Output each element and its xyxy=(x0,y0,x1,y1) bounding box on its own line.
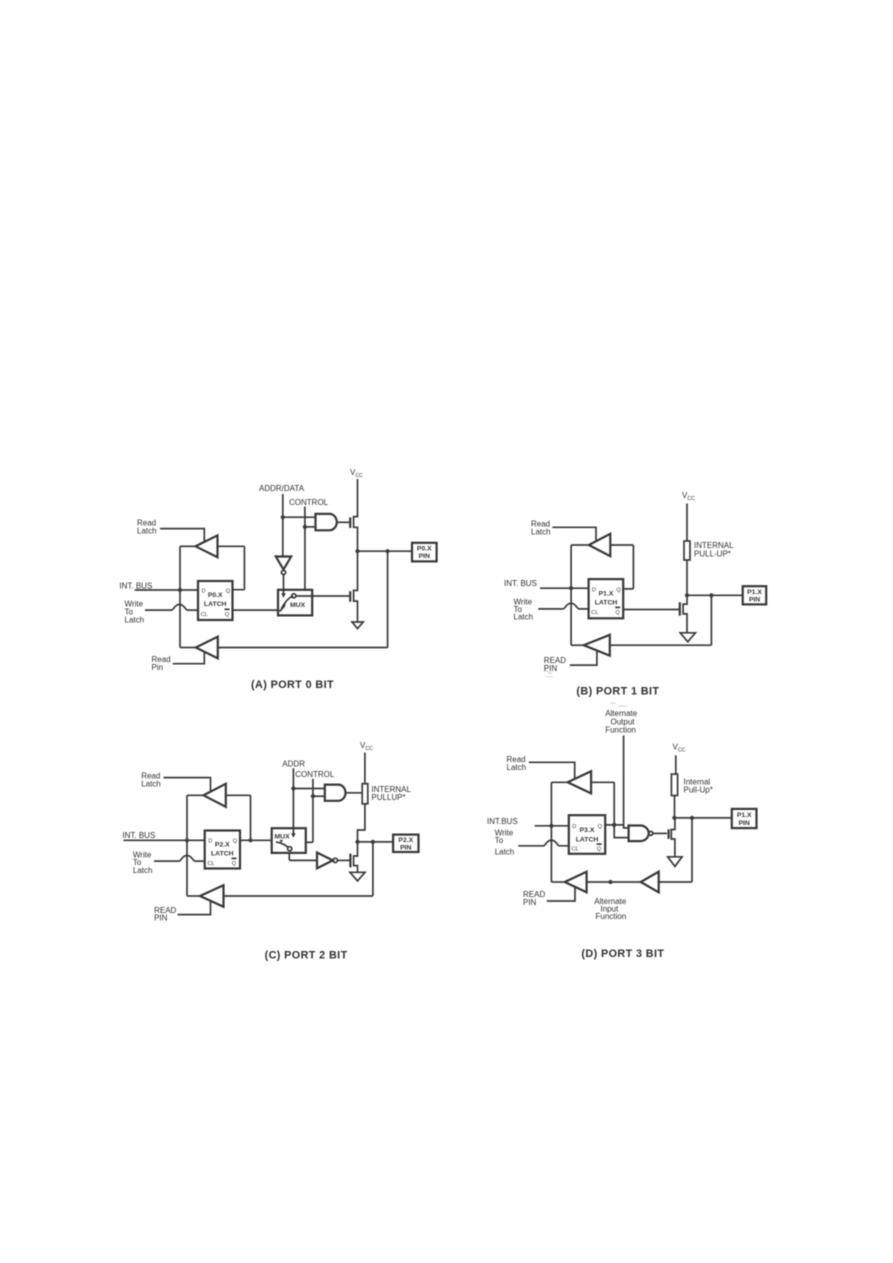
svg-text:P2.X: P2.X xyxy=(398,837,413,844)
svg-text:CL: CL xyxy=(591,610,598,616)
svg-text:CONTROL: CONTROL xyxy=(295,770,335,779)
svg-text:Q: Q xyxy=(226,588,231,594)
svg-text:P0.X: P0.X xyxy=(208,592,223,599)
svg-text:P1.X: P1.X xyxy=(737,812,752,819)
svg-text:VCC: VCC xyxy=(673,743,686,754)
svg-text:VCC: VCC xyxy=(360,741,373,752)
svg-text:D: D xyxy=(208,839,212,845)
svg-text:ADDR: ADDR xyxy=(282,760,305,769)
svg-text:Latch: Latch xyxy=(141,780,161,789)
svg-text:ADDR/DATA: ADDR/DATA xyxy=(259,484,305,493)
svg-text:Q: Q xyxy=(598,824,603,830)
svg-text:VCC: VCC xyxy=(682,491,695,502)
svg-text:PULL-UP*: PULL-UP* xyxy=(694,550,731,559)
svg-text:Pull-Up*: Pull-Up* xyxy=(684,786,713,795)
svg-text:LATCH: LATCH xyxy=(204,601,227,608)
svg-text:(A) PORT 0 BIT: (A) PORT 0 BIT xyxy=(251,679,334,691)
svg-text:Latch: Latch xyxy=(495,848,515,857)
svg-text:INT. BUS: INT. BUS xyxy=(122,831,155,840)
svg-text:CONTROL: CONTROL xyxy=(289,498,329,507)
svg-text:PIN: PIN xyxy=(400,845,411,852)
svg-text:Latch: Latch xyxy=(137,527,157,536)
svg-text:CL: CL xyxy=(208,861,215,867)
svg-text:PIN: PIN xyxy=(544,664,558,673)
svg-text:D: D xyxy=(202,588,206,594)
svg-text:P0.X: P0.X xyxy=(417,546,432,553)
svg-text:PIN: PIN xyxy=(739,820,750,827)
svg-text:PIN: PIN xyxy=(523,898,537,907)
svg-text:PULLUP*: PULLUP* xyxy=(371,793,405,802)
svg-text:LATCH: LATCH xyxy=(576,836,599,843)
svg-text:Latch: Latch xyxy=(531,528,551,537)
svg-text:PIN: PIN xyxy=(154,914,168,923)
svg-text:INT.BUS: INT.BUS xyxy=(487,817,518,826)
svg-text:LATCH: LATCH xyxy=(595,600,618,607)
svg-text:INT. BUS: INT. BUS xyxy=(504,579,537,588)
svg-text:(B) PORT 1 BIT: (B) PORT 1 BIT xyxy=(576,686,659,698)
svg-text:Function: Function xyxy=(596,912,627,921)
svg-text:Q: Q xyxy=(232,861,237,867)
svg-text:Latch: Latch xyxy=(514,613,534,622)
svg-text:Q: Q xyxy=(615,610,620,616)
svg-text:PIN: PIN xyxy=(749,597,760,604)
svg-text:VCC: VCC xyxy=(350,468,363,479)
svg-text:P1.X: P1.X xyxy=(747,589,762,596)
svg-text:LATCH: LATCH xyxy=(211,851,234,858)
svg-text:Pin: Pin xyxy=(152,663,164,672)
svg-text:Q: Q xyxy=(616,588,621,594)
svg-text:Q: Q xyxy=(225,612,230,618)
svg-text:MUX: MUX xyxy=(290,602,306,609)
svg-text:Latch: Latch xyxy=(507,763,527,772)
svg-text:(C) PORT 2 BIT: (C) PORT 2 BIT xyxy=(265,950,348,962)
svg-text:D: D xyxy=(592,588,596,594)
svg-text:MUX: MUX xyxy=(275,834,291,841)
svg-text:Q: Q xyxy=(597,847,602,853)
svg-text:CL: CL xyxy=(201,612,208,618)
svg-text:P3.X: P3.X xyxy=(580,827,595,834)
svg-text:CL: CL xyxy=(572,847,579,853)
svg-text:Latch: Latch xyxy=(133,866,153,875)
svg-text:To: To xyxy=(495,836,504,845)
svg-text:PIN: PIN xyxy=(419,553,430,560)
svg-text:P2.X: P2.X xyxy=(215,842,230,849)
svg-text:D: D xyxy=(572,824,576,830)
svg-text:Latch: Latch xyxy=(125,616,145,625)
svg-text:(D) PORT 3 BIT: (D) PORT 3 BIT xyxy=(581,948,664,960)
svg-text:P1.X: P1.X xyxy=(599,591,614,598)
svg-text:Function: Function xyxy=(605,726,636,735)
svg-text:Q: Q xyxy=(233,839,238,845)
